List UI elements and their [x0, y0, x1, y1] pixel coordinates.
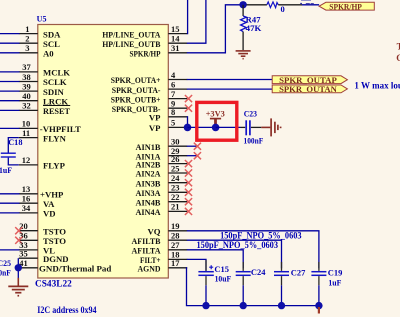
wire +3V3 node to C23 — [216, 126, 241, 128]
junction node rail C24 — [240, 302, 247, 309]
pin 20 TSTO — [19, 221, 66, 236]
wire pin14 right and up to top edge — [187, 0, 206, 43]
svg-text:C: C — [396, 53, 400, 63]
wire to pin 37 — [0, 71, 20, 73]
capacitor C15 — [198, 260, 213, 305]
svg-text:SPKR/HP: SPKR/HP — [329, 2, 362, 11]
resistor R (0 ohm) — [247, 2, 303, 8]
no-ERC X pin 7 — [185, 95, 192, 102]
svg-text:22: 22 — [171, 192, 180, 202]
capacitor C27 — [274, 262, 289, 306]
no-ERC X pin 29 — [194, 152, 201, 159]
wire to pin 40 — [0, 100, 20, 102]
wire pin8 down to pin5 node — [186, 117, 189, 128]
ground symbol below pin 41 — [8, 278, 28, 296]
pin 36 TSTO — [19, 231, 66, 246]
pin 13 +VHP — [19, 184, 64, 199]
svg-text:VA: VA — [43, 199, 55, 209]
pin 11 FLYN — [19, 128, 67, 143]
wire pin27 to C24 — [187, 250, 243, 269]
svg-text:SPKR_OUTA-: SPKR_OUTA- — [112, 85, 161, 95]
pin 38 SCLK — [19, 72, 67, 87]
svg-text:10uF: 10uF — [215, 273, 232, 283]
pin 19 VQ — [147, 221, 187, 236]
wire to pin 16 — [0, 202, 20, 204]
pin 22 AIN4B — [136, 192, 188, 207]
svg-text:5: 5 — [171, 118, 175, 128]
junction node rail C27 — [278, 302, 285, 309]
ground symbol below R47 — [236, 51, 251, 59]
wire stub pin 29 — [187, 155, 198, 157]
svg-text:1 W max loud: 1 W max loud — [354, 80, 400, 90]
svg-text:DGND: DGND — [43, 254, 69, 264]
svg-text:AFILTA: AFILTA — [132, 246, 162, 256]
pin 37 MCLK — [19, 62, 70, 77]
pin 41 GND/Thermal Pad — [19, 258, 112, 273]
junction node +3V3 — [212, 124, 220, 132]
svg-text:11: 11 — [22, 128, 30, 138]
no-ERC X pin 30 — [194, 143, 201, 150]
pin 32 RESET — [19, 101, 70, 116]
svg-text:1uF: 1uF — [0, 165, 12, 175]
svg-text:1: 1 — [25, 24, 29, 34]
svg-text:SCL: SCL — [43, 39, 60, 49]
svg-text:17: 17 — [171, 258, 180, 268]
no-ERC X pin 22 — [185, 198, 192, 205]
wire pin4 to port — [187, 79, 272, 81]
no-ERC X pin 25 — [185, 169, 192, 176]
svg-text:16: 16 — [22, 194, 31, 204]
svg-text:FLYP: FLYP — [43, 161, 66, 171]
capacitor C19 — [311, 262, 326, 306]
ground stub below rail — [318, 307, 320, 314]
wire to SPKR/HP port — [302, 4, 319, 6]
pin 9 SPKR_OUTB- — [112, 99, 188, 114]
pin 15 HP/LINE_OUTA — [102, 24, 187, 39]
pin 25 AIN2A — [136, 163, 188, 178]
svg-text:14: 14 — [171, 34, 180, 44]
pin 16 VA — [19, 194, 55, 209]
pin 40 LRCK — [19, 91, 69, 106]
svg-text:HP/LINE_OUTB: HP/LINE_OUTB — [102, 39, 160, 49]
pin 10 -VHPFILT — [19, 119, 81, 134]
svg-text:100nF: 100nF — [244, 135, 264, 145]
wire pin18 to C15 — [187, 259, 206, 270]
svg-text:35: 35 — [19, 249, 28, 259]
svg-text:SPKR_OUTB+: SPKR_OUTB+ — [111, 94, 161, 104]
svg-text:47K: 47K — [246, 23, 262, 33]
svg-text:6: 6 — [171, 79, 175, 89]
pin 27 AFILTA — [132, 240, 188, 255]
port SPKR_OUTAP — [272, 75, 347, 85]
cut-off net label fragments top edge — [300, 0, 314, 4]
no-ERC X pin 21 — [185, 208, 192, 215]
junction node rail C15 — [202, 302, 209, 309]
svg-text:AGND: AGND — [138, 264, 161, 274]
svg-text:AIN2A: AIN2A — [136, 169, 162, 179]
junction node pin5 — [184, 124, 192, 132]
no-ERC X pin 36 — [15, 237, 22, 244]
pin 12 FLYP — [19, 155, 66, 170]
wire pin5 node to +3V3 node — [188, 126, 216, 128]
pin 18 FILT+ — [140, 250, 187, 265]
svg-text:30: 30 — [171, 137, 180, 147]
svg-text:C19: C19 — [328, 267, 343, 277]
svg-text:GND/Thermal Pad: GND/Thermal Pad — [39, 264, 111, 274]
svg-text:U5: U5 — [37, 14, 47, 23]
svg-text:12: 12 — [22, 155, 31, 165]
svg-text:RESET: RESET — [43, 106, 70, 116]
svg-text:8: 8 — [171, 107, 175, 117]
junction node top — [239, 1, 246, 8]
capacitor C24 — [236, 262, 251, 306]
wire to pin 38 — [0, 81, 20, 83]
no-ERC X pin 20 — [15, 227, 22, 234]
pin 31 SPKR/HP — [130, 43, 188, 58]
wire to pin 34 — [0, 212, 20, 214]
svg-text:SDIN: SDIN — [43, 87, 64, 97]
port SPKR/HP — [319, 2, 374, 11]
svg-text:SCLK: SCLK — [43, 77, 67, 87]
pin 6 SPKR_OUTA- — [112, 79, 188, 94]
wire to pin 3 — [0, 52, 20, 54]
svg-text:+3V3: +3V3 — [206, 108, 225, 118]
wire to pin 32 — [0, 109, 20, 111]
pin 33 VL — [19, 240, 55, 255]
wire to pin 1 — [0, 33, 20, 35]
no-ERC X pin 26 — [185, 160, 192, 167]
pin 4 SPKR_OUTA+ — [111, 70, 188, 85]
svg-text:AIN4B: AIN4B — [136, 197, 161, 207]
svg-text:AIN1B: AIN1B — [136, 142, 161, 152]
pin 26 AIN2B — [136, 154, 188, 169]
svg-text:39: 39 — [22, 81, 31, 91]
junction node rail C19 — [315, 302, 322, 309]
wire stub pin 30 — [187, 145, 198, 147]
svg-text:T: T — [397, 42, 400, 52]
pin 1 SDA — [19, 24, 61, 39]
pin 28 AFILTB — [132, 231, 188, 246]
svg-text:0: 0 — [281, 4, 285, 14]
svg-text:3: 3 — [25, 43, 29, 53]
svg-text:1uF: 1uF — [328, 277, 341, 287]
svg-text:31: 31 — [171, 43, 180, 53]
wire to pin 33 — [0, 249, 20, 251]
svg-text:SPKR/HP: SPKR/HP — [130, 49, 162, 59]
pin 5 VP — [149, 118, 187, 133]
IC U5 body — [38, 25, 169, 279]
no-ERC X pin 23 — [185, 189, 192, 196]
svg-text:AIN3B: AIN3B — [136, 178, 161, 188]
svg-text:SPKR_OUTAN: SPKR_OUTAN — [279, 84, 338, 94]
pin 14 HP/LINE_OUTB — [102, 34, 187, 49]
svg-text:VD: VD — [43, 209, 56, 219]
pin 39 SDIN — [19, 81, 65, 96]
svg-text:34: 34 — [22, 203, 31, 213]
capacitor C23 — [241, 120, 262, 135]
svg-text:25: 25 — [171, 163, 180, 173]
svg-text:100nF: 100nF — [0, 267, 11, 277]
svg-text:AFILTB: AFILTB — [132, 236, 161, 246]
wire pin15 up to top edge — [186, 0, 189, 34]
pin 7 SPKR_OUTB+ — [111, 89, 188, 104]
wire pin28 to C27 — [187, 240, 282, 268]
pin 29 AIN1A — [136, 146, 188, 161]
pin 35 DGND — [19, 249, 69, 264]
svg-text:C27: C27 — [291, 267, 306, 277]
no-ERC X pin 9 — [185, 105, 192, 112]
junction node at pin 41 — [15, 264, 22, 271]
wire to pin 2 — [0, 42, 20, 44]
port SPKR_OUTAN — [272, 84, 347, 94]
wire pin6 to port — [187, 88, 272, 90]
svg-text:HP/LINE_OUTA: HP/LINE_OUTA — [102, 29, 161, 39]
ground symbol right of C23 — [261, 118, 280, 136]
svg-text:28: 28 — [171, 231, 180, 241]
svg-text:TSTO: TSTO — [43, 226, 66, 236]
no-ERC X pin 24 — [185, 179, 192, 186]
power port +3V3 — [206, 108, 225, 125]
svg-text:MCLK: MCLK — [43, 68, 70, 78]
wire to pin 10 — [0, 127, 20, 129]
pin 24 AIN3B — [136, 173, 188, 188]
svg-text:SPKR_OUTA+: SPKR_OUTA+ — [111, 75, 161, 85]
pin 17 AGND — [138, 258, 188, 273]
pin 21 AIN4A — [136, 202, 188, 217]
svg-text:C24: C24 — [251, 267, 266, 277]
svg-text:A0: A0 — [43, 49, 54, 59]
wire pin31 to net node — [187, 5, 243, 53]
pin 23 AIN3A — [136, 183, 188, 198]
svg-text:21: 21 — [171, 202, 180, 212]
wire to pin 13 — [0, 193, 20, 195]
wire pin19 to C19 — [187, 231, 319, 269]
wire pin17 down to rail — [187, 268, 319, 306]
resistor R47 — [241, 5, 247, 50]
svg-text:37: 37 — [22, 62, 31, 72]
wire C18 loop bottom — [8, 158, 18, 165]
pin 3 A0 — [19, 43, 54, 58]
svg-text:CS43L22: CS43L22 — [35, 280, 72, 290]
svg-text:FLYN: FLYN — [43, 133, 67, 143]
pin 8 VP — [149, 107, 187, 122]
svg-text:I2C address 0x94: I2C address 0x94 — [37, 306, 97, 316]
svg-text:SDA: SDA — [43, 29, 61, 39]
red highlight box — [197, 102, 237, 140]
svg-text:15: 15 — [171, 24, 180, 34]
svg-text:32: 32 — [22, 101, 31, 111]
svg-text:38: 38 — [22, 72, 31, 82]
svg-text:LRCK: LRCK — [43, 96, 68, 106]
svg-text:C23: C23 — [244, 108, 257, 118]
capacitor C18 — [1, 153, 16, 157]
pin 2 SCL — [19, 34, 60, 49]
svg-text:150pF_NPO_5%_0603: 150pF_NPO_5%_0603 — [197, 240, 279, 250]
pin 30 AIN1B — [136, 137, 188, 152]
wire C18 loop top — [8, 138, 18, 153]
svg-text:TSTO: TSTO — [43, 236, 66, 246]
svg-text:24: 24 — [171, 173, 180, 183]
svg-text:40: 40 — [22, 91, 31, 101]
wire pin35 down to pin41 node — [17, 258, 19, 278]
svg-text:2: 2 — [25, 34, 29, 44]
svg-text:VP: VP — [149, 113, 161, 123]
pin 34 VD — [19, 203, 56, 218]
svg-text:VP: VP — [149, 123, 161, 133]
svg-text:27: 27 — [171, 240, 180, 250]
svg-text:C18: C18 — [8, 137, 22, 147]
wire to pin 39 — [0, 90, 20, 92]
svg-text:AIN4A: AIN4A — [136, 207, 162, 217]
